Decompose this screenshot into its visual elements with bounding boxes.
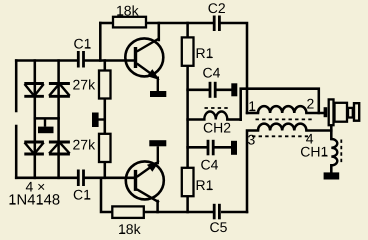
ground bar after C4 bottom [231, 141, 237, 155]
wire: diode column B [57, 61, 60, 178]
wire: pin3 corner down to bottom rail [247, 131, 258, 213]
capacitor C4 top [210, 82, 215, 98]
wire: C4 bottom right to ground [215, 146, 232, 149]
connector plug body [335, 103, 348, 122]
svg-text:3: 3 [248, 131, 256, 147]
wire: R1 top stub [186, 23, 189, 38]
ground Q1 emitter [150, 91, 166, 97]
svg-text:27k: 27k [73, 77, 97, 93]
wire: 27k chain bottom [104, 162, 107, 178]
transistor Q1 [125, 38, 163, 91]
svg-text:R1: R1 [196, 177, 214, 193]
svg-text:C4: C4 [203, 64, 221, 80]
svg-text:18k: 18k [116, 3, 140, 19]
wire: pin1 branch [247, 112, 258, 115]
connector plug flange [329, 99, 334, 125]
wire: left input vertical upper [15, 61, 18, 112]
wire: bottom-left corner to rail [101, 178, 112, 212]
wire: left input vertical lower [15, 126, 18, 178]
resistor 27k top [99, 71, 111, 99]
wire: C1 bottom to Q2 base [86, 177, 136, 180]
ground bar after C4 top [231, 83, 237, 96]
connector plug tip [354, 103, 359, 121]
wire: CH2 left [188, 118, 205, 121]
capacitor C4 bottom [208, 140, 213, 156]
wire: Q1 collector vertical [158, 23, 161, 40]
wire: C4 top left [188, 89, 209, 92]
resistor 18k top [113, 17, 146, 28]
wire: R1 bottom to rail [186, 196, 189, 212]
wire: bottom rail C5 to corner [222, 211, 247, 214]
wire: CH2 right [227, 118, 240, 121]
svg-text:C4: C4 [201, 156, 219, 172]
resistor 27k bottom [99, 134, 111, 162]
resistor 18k bottom [112, 206, 144, 218]
svg-text:2: 2 [307, 95, 315, 111]
svg-text:C2: C2 [208, 0, 226, 16]
wire: pin4 to plug stem [306, 129, 331, 132]
digit-1 serif feet [10, 14, 327, 234]
transistor Q2 [126, 146, 164, 202]
resistor R1 top [182, 37, 194, 65]
wire: diode mid join [35, 117, 59, 120]
wire: top rail C2 to corner, down to CH2 [221, 23, 247, 113]
connector plug neck [348, 108, 353, 118]
wire: C4 bottom left [188, 146, 207, 149]
ground CH1 [324, 172, 340, 179]
svg-text:1: 1 [248, 98, 256, 114]
diode D1 [24, 84, 44, 97]
diode D2 [49, 84, 70, 97]
svg-text:1N4148: 1N4148 [8, 193, 60, 209]
svg-text:C1: C1 [73, 187, 91, 203]
svg-text:27k: 27k [73, 137, 97, 153]
wire: C1 top to Q1 base [86, 59, 136, 62]
diode D3 [24, 142, 44, 154]
capacitor C5 [214, 204, 219, 220]
wire: diode column A [34, 61, 37, 178]
connector plug nub [324, 107, 328, 117]
svg-text:CH1: CH1 [300, 143, 328, 159]
capacitor C2 [214, 16, 219, 32]
wire: top-left rail to C1 [16, 59, 77, 62]
wire: top rail 18k to C2 [146, 22, 213, 25]
wire: shield loop top [241, 89, 319, 120]
inductor CH1 [331, 139, 337, 165]
wire: 27k chain top [104, 61, 107, 71]
svg-text:C5: C5 [210, 219, 228, 235]
transformer winding 1-2 [258, 106, 306, 113]
wire: CH1 bottom to ground [330, 165, 333, 172]
wire: winding12 to plug [306, 112, 323, 115]
capacitor C1 bottom [78, 170, 83, 187]
wire: 27k chain mid [104, 99, 107, 134]
svg-text:18k: 18k [118, 221, 142, 237]
inductor CH2 [204, 112, 227, 120]
wire: plug stem down to CH1 [330, 126, 333, 139]
ground between 27k resistors [99, 118, 105, 120]
transformer winding 3-4 [258, 124, 306, 131]
wire: top rail left of 18k [100, 22, 112, 25]
wire: bottom rail 18k to C5 [144, 211, 213, 214]
core dashes CH1 [340, 140, 342, 166]
resistor R1 bottom [182, 168, 194, 196]
core dashes CH2 [205, 107, 230, 109]
capacitor C1 top [78, 51, 83, 68]
svg-text:CH2: CH2 [203, 120, 231, 136]
core dashes lower [252, 135, 308, 137]
ground Q2 emitter [149, 140, 166, 146]
wire: C4 top right to ground [217, 89, 232, 92]
core dashes upper [256, 118, 313, 120]
ground between diodes [44, 118, 46, 126]
wire: bottom-left rail [16, 177, 77, 180]
wire: corner to top rail [99, 23, 102, 61]
diode D4 [49, 142, 70, 154]
wire: Q2 collector vertical [156, 201, 159, 212]
svg-text:C1: C1 [74, 36, 92, 52]
wire: R1 chain middle [186, 66, 189, 169]
svg-text:R1: R1 [196, 45, 214, 61]
